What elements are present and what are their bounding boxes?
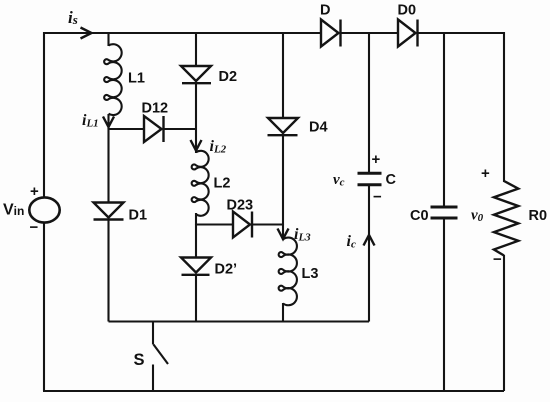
inductor L3 xyxy=(279,238,297,306)
svg-text:+: + xyxy=(481,165,490,182)
svg-text:L3: L3 xyxy=(302,266,319,282)
svg-text:Vin: Vin xyxy=(3,202,24,219)
svg-text:D2’: D2’ xyxy=(215,262,238,278)
diode D23 xyxy=(233,212,250,238)
svg-text:−: − xyxy=(373,189,382,206)
svg-text:D4: D4 xyxy=(309,120,328,136)
wire: D12 row junction down with iL2 arrow xyxy=(195,129,197,153)
wire: D23 row down with iL3 arrow xyxy=(282,225,284,241)
capacitor C xyxy=(358,172,382,175)
svg-text:D0: D0 xyxy=(398,3,417,19)
switch S blade xyxy=(154,345,169,365)
wire: top rail D to D0 xyxy=(340,32,398,34)
wire: left rail below Vin xyxy=(43,223,45,391)
wire: L1 to D12 row with iL1 arrow xyxy=(107,114,109,129)
inductor L2 xyxy=(192,151,209,216)
svg-text:vc: vc xyxy=(333,172,345,189)
diode D4 xyxy=(268,118,298,133)
svg-text:D2: D2 xyxy=(219,69,238,85)
resistor R0 xyxy=(494,181,518,256)
diode D1 xyxy=(94,203,124,218)
svg-text:−: − xyxy=(30,219,39,236)
wire: R0 bottom to bottom rail xyxy=(503,255,505,391)
wire: D12 to L2 column xyxy=(164,128,197,130)
svg-text:D12: D12 xyxy=(142,101,169,117)
wire: D2' to bottom-mid rail xyxy=(195,275,197,322)
svg-text:iL2: iL2 xyxy=(210,138,227,156)
wire: iL1 node to D12 xyxy=(109,128,145,130)
wire: top rail xyxy=(44,32,321,34)
inductor L1 xyxy=(104,44,122,115)
svg-text:D23: D23 xyxy=(227,198,254,214)
wire: top rail right of D0 xyxy=(417,32,504,34)
svg-text:+: + xyxy=(372,151,381,168)
svg-text:R0: R0 xyxy=(529,208,548,224)
diode D xyxy=(321,20,339,47)
node is arrow xyxy=(81,28,92,39)
svg-text:C: C xyxy=(386,172,397,188)
svg-text:is: is xyxy=(68,8,78,27)
svg-text:iL1: iL1 xyxy=(82,112,99,130)
svg-text:iL3: iL3 xyxy=(294,226,311,244)
node iL2 arrow xyxy=(191,140,202,151)
wire: D23 row to D2p xyxy=(195,225,197,258)
wire: D4 top stub xyxy=(282,32,284,118)
wire: L1 top stub xyxy=(107,33,109,46)
node iL1 arrow xyxy=(103,117,114,128)
diode D2' xyxy=(181,258,211,273)
svg-text:ic: ic xyxy=(347,233,356,251)
wire: left rail xyxy=(43,32,45,197)
node ic arrow xyxy=(364,235,375,246)
wire: C bottom to bottom-mid rail with ic arrow xyxy=(368,186,370,322)
wire: R0 top stub xyxy=(503,32,505,182)
svg-text:C0: C0 xyxy=(410,208,429,224)
diode D0 xyxy=(398,20,416,47)
capacitor C0 xyxy=(431,206,458,209)
wire: D12 row to D1 xyxy=(107,128,109,202)
wire: C0 top stub xyxy=(443,33,445,206)
diode D2 xyxy=(181,66,211,81)
wire: D1 to bottom-mid rail xyxy=(107,220,109,322)
source Vin xyxy=(29,197,59,222)
svg-text:−: − xyxy=(493,251,502,268)
svg-text:L2: L2 xyxy=(214,176,231,192)
wire: bottom rail xyxy=(43,390,504,392)
wire: D2 to D12 row xyxy=(195,83,197,129)
switch S bottom stub xyxy=(152,365,154,392)
wire: C0 bottom to bottom rail xyxy=(443,219,445,391)
wire: L2 node to D23 xyxy=(196,223,233,225)
svg-text:D: D xyxy=(320,3,330,19)
node iL3 arrow xyxy=(278,229,289,240)
wire: bottom-mid rail xyxy=(109,320,370,322)
diode D12 xyxy=(144,116,162,142)
svg-text:+: + xyxy=(30,183,39,200)
svg-text:L1: L1 xyxy=(128,71,145,87)
svg-text:v0: v0 xyxy=(471,208,484,225)
svg-text:S: S xyxy=(134,351,145,369)
wire: D23 to D4 column xyxy=(252,223,283,225)
wire: L3 to bottom-mid rail xyxy=(282,303,284,322)
switch S top stub xyxy=(152,322,154,345)
wire: D2 top stub xyxy=(195,32,197,66)
wire: L2 to D23 row xyxy=(195,213,197,225)
wire: C top stub xyxy=(368,33,370,172)
svg-text:D1: D1 xyxy=(129,208,148,224)
wire: D4 to D23 row xyxy=(282,135,284,225)
